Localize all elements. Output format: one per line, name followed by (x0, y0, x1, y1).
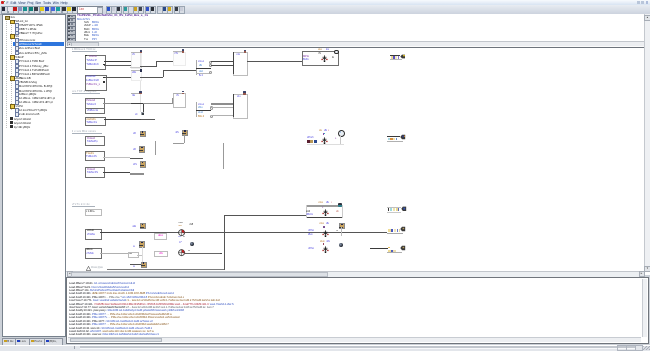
nub IB2b (103, 81, 105, 83)
input port IB5 (85, 117, 106, 126)
clock tap CS3b (131, 92, 140, 95)
clock pad CS13 (141, 262, 147, 268)
pin bubble M1c (209, 71, 212, 74)
wire (131, 102, 144, 105)
crystal glyph OSC1 (321, 137, 328, 145)
clock pad CS6 (140, 131, 146, 137)
output port OP2 (387, 136, 400, 137)
wire (130, 157, 143, 160)
wire (105, 77, 131, 78)
wire (370, 247, 388, 250)
wire (340, 135, 341, 144)
wire underline (107, 268, 224, 271)
clock pad CS10 (140, 223, 146, 229)
output glyph OP2 (400, 134, 406, 140)
clock tap CS13 (130, 263, 140, 266)
wire bus (211, 103, 233, 105)
wire (183, 134, 186, 143)
output port OP3 (388, 229, 391, 232)
wire (163, 69, 197, 72)
wire (211, 61, 234, 62)
clock buffer CS2 (173, 52, 187, 67)
wire (211, 114, 233, 117)
wire (155, 61, 158, 68)
pin icon CS2 (182, 49, 184, 51)
input port IB9 (85, 229, 101, 241)
wire (141, 118, 155, 121)
clock buffer CS1 (131, 52, 143, 69)
node dot OSC2 (323, 226, 325, 228)
wire (131, 51, 140, 54)
net faint vertical 2 (141, 247, 144, 268)
crystal glyph X2 (322, 209, 329, 217)
clock source ring OSC1 (338, 130, 345, 137)
node section2 header (72, 90, 100, 94)
junction JC2 (178, 249, 186, 257)
net label NL2 (154, 251, 168, 258)
input port IB3 (85, 98, 105, 108)
wire (162, 70, 165, 77)
clock pad CS11 (339, 223, 345, 229)
wire (173, 50, 183, 53)
input port IB2 (85, 75, 107, 91)
crystal glyph OSC2 (322, 230, 329, 238)
pin icon X2 (338, 203, 343, 205)
junction JC1 (178, 229, 186, 237)
wire (307, 143, 344, 146)
node ball FC2 (339, 243, 343, 247)
wire (173, 142, 185, 145)
output glyph OP3 (400, 226, 406, 232)
node dot OSC1 (323, 133, 325, 135)
wire (211, 64, 234, 67)
clock buffer CS5 (173, 93, 187, 108)
module block X2 (306, 205, 342, 207)
buffer block B1 (233, 52, 249, 76)
wire (100, 232, 131, 233)
pin icon B1 (244, 50, 246, 52)
note triangle (86, 266, 91, 271)
output port OP1 (390, 55, 400, 56)
node section4 header (72, 203, 95, 207)
mux column M1 (195, 60, 198, 76)
wire (340, 227, 343, 236)
note box SB0 (85, 209, 103, 216)
wire stub (220, 253, 222, 255)
node ball FC1 (190, 242, 194, 246)
node CLK section header (72, 48, 97, 52)
pin bubble M1a (209, 61, 212, 64)
module block X1 (302, 51, 339, 66)
wire (140, 65, 156, 68)
output glyph OP0 (401, 206, 407, 212)
wire (104, 64, 132, 67)
crystal glyph X1 (321, 55, 328, 63)
inline box SB1 (128, 252, 139, 258)
junction labels (178, 222, 182, 225)
oscillator OSC3 labels (320, 240, 325, 243)
oscillator OSC2 labels (319, 222, 324, 225)
output glyph OP4 (400, 245, 406, 251)
clock pad CS9 (182, 130, 188, 136)
crystal glyph OSC3 (322, 246, 329, 254)
output port OP0 (387, 206, 401, 209)
wire (232, 94, 235, 118)
wire (100, 252, 128, 255)
input port IB4 (85, 108, 105, 114)
nub IB2a (103, 77, 105, 79)
input port IB1 (85, 55, 106, 70)
wire bus (130, 173, 143, 175)
wire (247, 60, 303, 63)
wire bus (143, 103, 172, 105)
wire (104, 61, 132, 62)
clock pad CS12 (139, 241, 145, 247)
pin ring X1 (334, 50, 338, 54)
pin bubble M1b (209, 64, 212, 67)
wire (103, 156, 131, 159)
wire bus (172, 98, 173, 104)
net label NL1 (154, 233, 167, 239)
pin bubble M2c (210, 115, 213, 118)
wire (154, 141, 157, 155)
clock pad CS7 (139, 146, 145, 152)
wire (137, 254, 142, 257)
pin icon CS5 (182, 91, 184, 93)
node section3 header (72, 130, 102, 134)
clock pad CS4 (141, 112, 144, 115)
input port IB6 (85, 136, 104, 146)
clock pad CS8 (140, 161, 146, 167)
oscillator OSC1 labels (319, 129, 322, 132)
wire (103, 172, 131, 173)
wire (232, 52, 235, 74)
node dot OSC3 (323, 243, 325, 245)
wire (142, 103, 145, 112)
wire (222, 143, 225, 169)
wire (104, 119, 142, 120)
input port IB7 (85, 151, 105, 161)
wire (223, 215, 226, 270)
pin icon B2 (243, 91, 245, 93)
wire (173, 92, 183, 95)
net faint vertical (139, 53, 142, 112)
input port IB8 (85, 167, 104, 178)
mux column M2 (195, 102, 198, 117)
buffer block B2 (233, 94, 248, 120)
nub IB1 (103, 64, 105, 66)
wire (211, 106, 233, 109)
pin bubble M2b (210, 106, 213, 109)
wire bus (103, 103, 131, 105)
output glyph OP1 (400, 54, 406, 59)
input port IB10 (85, 248, 102, 260)
clock buffer CS3 (131, 70, 143, 80)
wire (156, 60, 173, 63)
wire net1 (130, 231, 387, 234)
wire (185, 252, 222, 255)
wire (224, 214, 306, 217)
pin icon CS1 (140, 50, 142, 52)
wire (140, 76, 163, 79)
